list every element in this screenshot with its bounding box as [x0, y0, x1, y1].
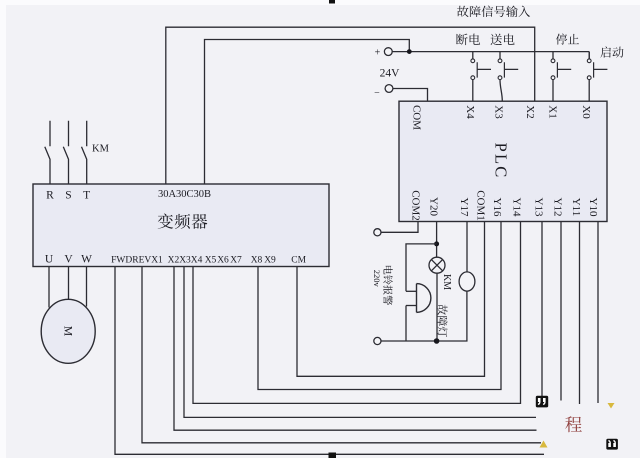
label 停止	[556, 34, 579, 45]
svg-text:CM: CM	[291, 255, 306, 265]
svg-text:T: T	[83, 190, 90, 202]
KM main contact phase T	[82, 121, 87, 184]
svg-text:24V: 24V	[380, 68, 401, 80]
watermark quote close	[606, 439, 618, 450]
label 故障灯	[437, 305, 447, 337]
wire FWD cut	[115, 267, 544, 455]
svg-text:FWDREV: FWDREV	[111, 255, 151, 265]
wire KM lamp to bottom junction	[436, 273, 438, 341]
svg-text:+: +	[375, 47, 381, 58]
pushbutton 断电	[471, 52, 491, 102]
svg-text:Y20: Y20	[428, 197, 440, 216]
wire bus corner to 启动	[588, 52, 590, 59]
motor M	[41, 299, 95, 363]
svg-text:V: V	[64, 254, 73, 266]
terminal 24V plus	[384, 48, 392, 56]
page margin left	[0, 0, 6, 458]
svg-text:X3: X3	[493, 105, 505, 119]
svg-text:Y16: Y16	[491, 198, 503, 217]
watermark quote open	[536, 396, 548, 408]
PLC box U1	[399, 101, 607, 221]
wire W to motor	[86, 267, 88, 307]
lamp KM (circle with X)	[429, 257, 445, 273]
wire Y20 to KM lamp	[436, 222, 438, 258]
watermark black square bottom	[329, 453, 337, 458]
watermark yellow arrow left	[540, 441, 548, 448]
wire Y13 stub	[541, 222, 543, 398]
watermark char 程	[565, 416, 582, 432]
bell 电铃	[417, 284, 431, 313]
svg-text:X4: X4	[464, 105, 476, 119]
wire X3 cut	[184, 267, 536, 418]
svg-text:Y17: Y17	[458, 198, 470, 217]
svg-text:U: U	[45, 254, 54, 266]
svg-text:M: M	[62, 326, 76, 337]
svg-text:−: −	[374, 88, 380, 99]
svg-text:KM: KM	[441, 274, 452, 290]
inverter title 变频器	[158, 214, 208, 229]
wire bell branch lower	[405, 306, 407, 342]
svg-text:KM: KM	[92, 144, 110, 155]
svg-text:Y10: Y10	[587, 198, 599, 217]
bell top stub	[406, 290, 417, 292]
label 断电	[456, 34, 480, 46]
svg-text:X5: X5	[205, 255, 217, 265]
wire 24V- to COM	[393, 89, 428, 102]
label 启动	[600, 47, 623, 58]
label 电铃报警	[383, 266, 392, 305]
svg-text:Y13: Y13	[533, 198, 545, 217]
wire X8 to Y16	[258, 222, 501, 390]
inverter box 变频器	[33, 184, 329, 267]
terminal 220V top	[374, 229, 381, 236]
svg-text:S: S	[65, 190, 71, 202]
KM main contact phase R	[45, 121, 50, 184]
svg-text:COM: COM	[411, 105, 423, 130]
svg-text:PLC: PLC	[492, 143, 511, 180]
svg-text:X2: X2	[524, 105, 536, 118]
wire CM to COM1	[297, 222, 485, 377]
junction bottom rail	[434, 338, 440, 344]
wire V to motor	[68, 267, 70, 300]
svg-text:30A30C30B: 30A30C30B	[158, 189, 211, 200]
pushbutton 送电	[498, 52, 518, 102]
svg-text:X6: X6	[217, 255, 229, 265]
svg-text:Y11: Y11	[570, 198, 582, 217]
junction Y20 branch	[434, 241, 439, 246]
wire Y10 stub	[597, 222, 599, 404]
svg-text:X8: X8	[251, 255, 263, 265]
bell bottom stub	[406, 305, 417, 307]
lamp 故障灯	[459, 272, 475, 291]
pushbutton 停止	[551, 52, 571, 102]
svg-text:COM1: COM1	[475, 190, 487, 221]
watermark yellow arrow right	[608, 403, 615, 409]
svg-text:220v: 220v	[372, 270, 382, 288]
svg-text:R: R	[46, 190, 54, 202]
label 故障信号输入	[457, 6, 530, 17]
page margin top	[0, 0, 640, 5]
svg-text:W: W	[81, 254, 92, 266]
svg-text:X0: X0	[580, 105, 592, 119]
svg-text:COM2: COM2	[410, 190, 422, 221]
junction on 24V+ bus	[407, 49, 412, 54]
pushbutton 启动	[587, 52, 607, 102]
wire Y12 stub	[560, 222, 562, 401]
label 送电	[491, 34, 515, 45]
wire X4 to Y14	[193, 222, 521, 404]
svg-text:X1: X1	[151, 255, 163, 265]
svg-text:Y12: Y12	[552, 198, 564, 217]
svg-text:X1: X1	[547, 105, 559, 118]
wire U to motor	[48, 267, 50, 308]
wire 30B to 24V+ bus	[205, 40, 410, 185]
KM main contact phase S	[63, 121, 68, 184]
wire COM2 to 220V L	[381, 222, 418, 233]
watermark black tick top	[329, 0, 335, 4]
svg-text:X9: X9	[264, 255, 276, 265]
wire bell branch upper	[406, 244, 437, 291]
wire Y11 stub	[579, 222, 581, 405]
terminal 24V minus	[385, 85, 393, 93]
terminal 220V bottom	[374, 337, 381, 344]
svg-text:X2X3X4: X2X3X4	[168, 255, 203, 265]
wire 24V+ bus	[392, 51, 589, 53]
wire 30A to X2 fault signal	[166, 27, 535, 184]
svg-text:X7: X7	[230, 255, 242, 265]
wire REV cut	[142, 267, 541, 443]
wire 故障灯 to Y17	[466, 222, 468, 272]
svg-text:Y14: Y14	[511, 198, 523, 217]
wire 220V bottom rail	[381, 291, 467, 341]
wire X2 cut	[174, 267, 537, 431]
